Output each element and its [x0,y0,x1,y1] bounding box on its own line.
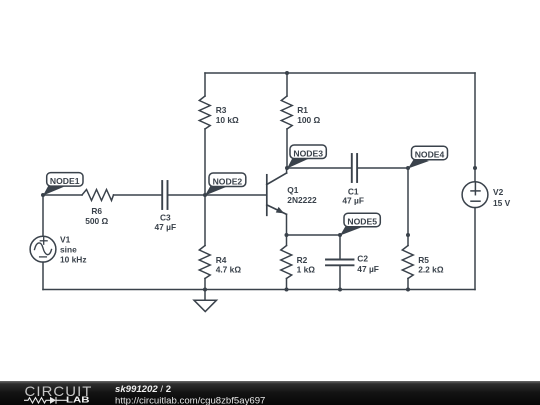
svg-text:LAB: LAB [66,396,90,405]
svg-text:V1: V1 [60,235,71,245]
capacitor C1 [352,154,357,182]
wire NODE4 down to R5 joint [407,168,409,235]
node label box NODE2 [209,173,246,187]
svg-text:NODE1: NODE1 [50,176,80,186]
wire R2 bottom lead [286,279,288,290]
resistor R2 [281,246,292,279]
wire R2 top lead [286,235,288,246]
junction dot bottom rail C2 [338,288,342,292]
source V1 sine wave [35,243,52,255]
emitter arrow Q1 [276,207,284,214]
svg-text:2.2 kΩ: 2.2 kΩ [418,264,444,274]
logo diode triangle [50,397,56,404]
junction dot R5 top [406,233,410,237]
source V2 plus sign [471,182,480,195]
node label box NODE3 [290,145,326,159]
svg-text:NODE2: NODE2 [213,176,243,186]
source V2 circle [462,182,488,208]
svg-text:4.7 kΩ: 4.7 kΩ [216,264,242,274]
svg-text:500 Ω: 500 Ω [85,216,108,226]
wire R3 top lead [204,73,206,96]
source V1 plus sign [40,237,47,244]
wire R3 bottom lead to NODE2 [204,129,206,195]
svg-text:R5: R5 [418,255,429,265]
svg-text:V2: V2 [493,187,504,197]
svg-text:47 µF: 47 µF [357,264,379,274]
svg-text:R6: R6 [91,206,102,216]
wire V1 bottom lead [42,262,44,289]
transistor Q1 [267,173,287,215]
wire bottom rail [43,289,475,291]
resistor R5 [402,246,413,279]
node label box NODE4 [412,146,448,160]
node NODE4 dot [406,166,410,170]
svg-text:R1: R1 [297,105,308,115]
resistor R3 [199,96,210,129]
node label box NODE5 [344,213,380,227]
resistor R4 [199,246,210,279]
wire C1 to NODE4 [358,167,408,169]
svg-text:2N2222: 2N2222 [287,195,317,205]
svg-text:10 kHz: 10 kHz [60,255,87,265]
node NODE3 dot [285,166,289,170]
svg-text:1 kΩ: 1 kΩ [297,264,316,274]
node NODE5 dot [338,233,342,237]
junction dot V2 column [473,166,477,170]
svg-text:sine: sine [60,244,77,254]
svg-text:15 V: 15 V [493,198,511,208]
wire R5 top lead [407,235,409,246]
wire R1 bottom lead to NODE3 [286,129,288,168]
wire NODE5 line emitter to C2 [287,234,341,236]
node label pointer NODE5 [340,225,361,236]
svg-text:C2: C2 [357,253,368,263]
svg-text:47 µF: 47 µF [342,196,364,206]
resistor R6 [82,190,114,201]
wire C2 bottom lead [339,266,341,289]
node NODE1 dot [41,193,45,197]
resistor R1 [281,96,292,129]
capacitor C3 [162,181,167,209]
capacitor C2 [326,260,354,266]
svg-text:NODE5: NODE5 [347,217,377,227]
wire base line NODE1 to R6 [43,194,82,196]
source V2 minus sign [471,200,480,202]
svg-text:NODE3: NODE3 [293,148,323,158]
wire V1 top lead [42,195,44,236]
wire V2 top lead [474,73,476,182]
logo schematic squiggle [24,397,67,404]
node label box NODE1 [47,173,83,187]
svg-text:100 Ω: 100 Ω [297,115,320,125]
node label pointer NODE3 [287,156,308,169]
wire ground stub [204,290,206,301]
wire R1 top lead [286,73,288,96]
svg-text:Q1: Q1 [287,185,299,195]
junction dot bottom rail R5 [406,288,410,292]
node label pointer NODE1 [43,184,64,196]
junction dot bottom rail R4 [203,288,207,292]
svg-text:NODE4: NODE4 [415,150,445,160]
wire C3 to base of Q1 [168,194,266,196]
wire R6 to C3 [114,194,162,196]
svg-text:sk991202 / 2: sk991202 / 2 [115,384,171,395]
wire V2 bottom lead [474,208,476,290]
svg-text:R3: R3 [216,105,227,115]
node label pointer NODE4 [408,158,429,169]
svg-text:R4: R4 [216,255,227,265]
wire R4 top lead [204,195,206,246]
svg-text:R2: R2 [297,255,308,265]
wire NODE3 to C1 [287,167,351,169]
wire R5 bottom lead [407,279,409,290]
svg-text:10 kΩ: 10 kΩ [216,115,239,125]
wire Q1 emitter down [286,214,288,235]
junction dot bottom rail R2 [285,288,289,292]
ground symbol [194,300,217,311]
wire Q1 collector to NODE3 [286,168,288,173]
svg-text:http://circuitlab.com/cgu8zbf5: http://circuitlab.com/cgu8zbf5ay697 [115,396,265,405]
svg-text:C3: C3 [160,212,171,222]
junction dot top rail R1 [285,71,289,75]
node label pointer NODE2 [205,184,226,196]
svg-text:47 µF: 47 µF [155,222,177,232]
wire C2 top lead [339,235,341,259]
footer bar [0,381,540,405]
node NODE2 dot [203,193,207,197]
wire R4 bottom lead [204,279,206,290]
junction dot emitter [285,233,289,237]
source V1 circle [30,236,56,262]
wire top rail [205,72,475,74]
source V1 minus sign [40,256,47,258]
